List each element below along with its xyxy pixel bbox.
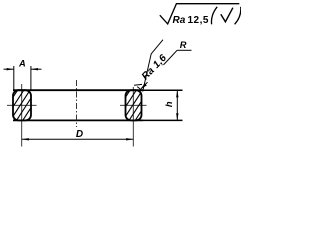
svg-text:D: D [76,129,83,140]
svg-text:R: R [180,40,187,50]
svg-text:A: A [18,58,26,68]
svg-text:h: h [164,101,174,107]
svg-text:Ra: Ra [173,15,186,26]
svg-text:12,5: 12,5 [188,15,209,26]
